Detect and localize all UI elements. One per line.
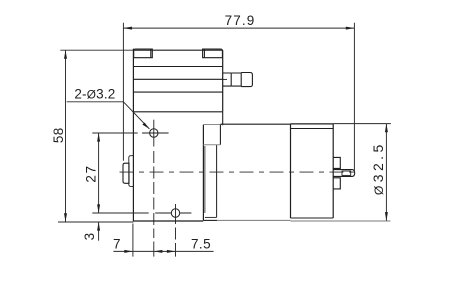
arrow dim 77.9 right [346,27,355,30]
arrow dim 58 bottom [64,213,67,222]
hole 1 vertical centerline solid [153,120,155,147]
terminal slot [342,171,351,175]
barb fitting neck [223,73,232,86]
dim 7 left extension line [132,224,134,257]
mounting hole 1 [150,129,158,137]
dim diameter 32.5 top extension line [333,123,391,125]
arrow dim 7 [124,250,133,253]
pump head outline [133,49,222,222]
label leader line [123,102,149,129]
right clamp tab [203,49,223,58]
end cap right edge [332,124,334,218]
bracket bottom edge [133,220,203,222]
left tab notch [150,49,152,58]
arrow dim 32.5 top [385,124,388,133]
dim 77.9 right extension line [353,23,355,172]
pump head layer line 1 [133,66,222,68]
crankcase left edge [202,125,204,221]
motor can right boundary [290,124,292,218]
barb stub line [223,78,227,80]
right tab notch [203,49,205,58]
barb fitting middle segment [231,73,241,87]
hole 1 centerline bottom solid segment [153,242,155,257]
mounting hole 2 [171,209,179,217]
end cap top edge [291,123,334,125]
arrow dim 7.5 right [167,250,176,253]
pump head layer line 2 [133,78,222,80]
hole 1 horizontal centerline [142,132,169,134]
arrow dim 27 bottom [97,204,100,213]
dim diameter 32.5 line [385,124,387,221]
svg-text:58: 58 [51,127,66,143]
crankcase bottom edge [203,219,217,221]
crankcase boss bottom line [205,216,217,218]
arrow leader [142,123,149,129]
lower terminal [333,178,340,189]
dim 27 line [98,133,100,213]
hole 2 horizontal centerline [161,212,192,214]
svg-text:7: 7 [113,237,121,252]
arrow dim 7.5 left [154,250,163,253]
end cap top rim line [291,128,334,130]
dim 58 line [65,50,67,222]
arrow dim 3 up [97,222,100,231]
arrow dim 32.5 bottom [385,212,388,221]
dim 27 bottom extension line [92,212,160,214]
hole 2 centerline bottom solid segment [175,243,177,257]
hole 2 vertical centerline dashed extension [175,228,177,240]
dim 27 top extension line [92,132,137,134]
svg-text:Ø32.5: Ø32.5 [370,141,386,195]
crankcase right edge [219,125,221,145]
dim 3 line tail [98,222,100,241]
end cap bottom edge and dim extension [291,220,391,222]
dim 77.9 left extension line [122,23,124,161]
motor can bottom edge [217,219,291,221]
svg-text:2-Ø3.2: 2-Ø3.2 [74,86,115,101]
pump head layer line 3 [133,91,222,93]
head right edge lower extension [222,112,224,125]
bump step [129,156,134,187]
hole 2 vertical centerline solid [175,204,177,224]
end cap bottom rim line [291,217,334,219]
crankcase inner boss line [216,145,218,218]
pump head bottom line [133,111,222,113]
barb fitting tip [241,73,252,87]
main centerline [120,171,360,173]
dim 58 top extension line [60,49,133,51]
crankcase inner left line [204,146,206,213]
dim 77.9 line [123,27,354,29]
middle terminal blade [333,170,355,177]
label 2-diam3.2 underline [67,101,124,103]
left clamp tab [134,49,153,58]
crankcase mid gray line [203,144,220,146]
motor can top edge [220,123,290,125]
crankcase top edge [203,124,222,126]
arrow dim 77.9 left [123,27,132,30]
dim 7 and 7.5 line [113,250,213,252]
svg-text:7.5: 7.5 [191,237,211,252]
svg-text:27: 27 [84,164,99,182]
svg-text:77.9: 77.9 [225,13,256,28]
diaphragm cover bump [123,163,129,183]
svg-text:3: 3 [82,232,97,240]
arrow dim 27 top [97,133,100,142]
dim 58 bottom extension line [58,221,133,223]
upper terminal [333,157,340,168]
hole 1 vertical centerline dashed extension [153,151,155,238]
arrow dim 58 top [64,50,67,59]
